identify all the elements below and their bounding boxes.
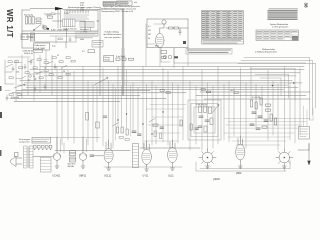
wire vert from top section bbox=[100, 24, 188, 85]
svg-text:UL11: UL11 bbox=[168, 175, 174, 178]
wire bottom rail mid bbox=[55, 150, 130, 152]
junction node e bbox=[151, 133, 152, 134]
transformer T1 winding hatch bbox=[65, 19, 73, 27]
tube V6 envelope bbox=[168, 147, 178, 162]
tube V3 pins bbox=[79, 137, 86, 166]
big box right double line a bbox=[121, 9, 123, 95]
svg-text:0,05µ 500: 0,05µ 500 bbox=[11, 97, 19, 99]
tube V5 grid lines bbox=[143, 154, 149, 160]
junction dot right bbox=[272, 85, 274, 87]
resistor R47 bbox=[262, 126, 267, 128]
wire after arrow bbox=[63, 9, 101, 11]
capacitor C51 bbox=[199, 116, 203, 117]
resistor R60 bbox=[52, 57, 56, 59]
rectifier V1 wires bbox=[53, 21, 86, 31]
wire left rail bbox=[21, 10, 23, 48]
resistor R62 bbox=[66, 57, 70, 59]
junction node d bbox=[162, 111, 163, 112]
table valve-data text fill col1 bbox=[202, 12, 204, 38]
ground g7 bbox=[238, 166, 242, 168]
transformer T2 hatch1 bbox=[24, 149, 28, 166]
switch contact squares bbox=[34, 146, 37, 149]
resistor R26 bbox=[9, 94, 13, 96]
wire bus right low1 bbox=[200, 91, 310, 93]
capacitor C23 bbox=[30, 59, 32, 65]
svg-text:0,1: 0,1 bbox=[148, 26, 151, 28]
table valve-data row lines bbox=[202, 13, 244, 37]
speaker LS1 magnet bbox=[15, 153, 19, 157]
wire eye right vert bbox=[187, 19, 189, 48]
junction dot right2 bbox=[293, 82, 295, 84]
table small B rows bbox=[117, 2, 130, 3]
ground g4 bbox=[145, 169, 149, 171]
coil L5 bbox=[163, 55, 167, 59]
capacitor C3 electrolytic bbox=[32, 17, 34, 25]
resistor R73 bbox=[207, 91, 211, 93]
tube V7 pins bbox=[238, 136, 243, 166]
tube V6 grid lines bbox=[169, 152, 175, 158]
wire to next stage bbox=[94, 155, 104, 157]
wire bus mid2 bbox=[22, 33, 98, 35]
tube socket SK2 center dot bbox=[284, 157, 286, 159]
table valve-data text fill col7 bbox=[234, 12, 238, 36]
speaker LS1 cone bbox=[11, 157, 16, 167]
resistor R32 bbox=[126, 129, 128, 135]
big box top edge bbox=[100, 8, 124, 10]
scan smudge left edge 1 bbox=[0, 86, 2, 91]
scan smudge left edge 3 bbox=[0, 150, 2, 156]
table valve-data text fill col3 bbox=[212, 12, 216, 34]
wire bottom rail under tubes bbox=[104, 166, 182, 168]
wire bus B4 bbox=[26, 86, 298, 88]
tube V6 pins bbox=[170, 140, 175, 168]
switch contact sq3 bbox=[42, 146, 45, 149]
table right-upper text rows bbox=[268, 11, 297, 19]
junction node a bbox=[117, 119, 118, 120]
target anode circle bbox=[162, 20, 166, 24]
resistor R71 bbox=[166, 92, 170, 94]
tube V2 triode circle bbox=[53, 153, 60, 160]
potentiometer P1 arrow bbox=[14, 84, 25, 88]
resistor R64 bbox=[39, 77, 43, 79]
svg-text:0,1µ: 0,1µ bbox=[52, 46, 56, 48]
resistor R28 bbox=[37, 59, 41, 61]
svg-text:38: 38 bbox=[304, 3, 309, 9]
wire staircase right bbox=[238, 58, 316, 120]
wire bus right low3 bbox=[204, 98, 310, 100]
small circle node bbox=[29, 75, 32, 78]
resistor R23 bbox=[33, 67, 37, 69]
wire eye left drop bbox=[146, 19, 148, 48]
extra verticals mid-left bbox=[116, 85, 131, 140]
svg-text:in Stellung M gezeichnet: in Stellung M gezeichnet bbox=[255, 51, 277, 54]
coil L6 bbox=[168, 55, 172, 59]
wire bus B3 bbox=[18, 84, 288, 86]
table valve-data caption text bbox=[203, 41, 241, 43]
resistor R50 bbox=[199, 106, 202, 113]
svg-text:von vorn gesehen: von vorn gesehen bbox=[105, 37, 121, 39]
table valve-data text fill col8 bbox=[239, 12, 243, 38]
dropper resistor dark striped bbox=[80, 22, 94, 28]
resistor R33 bbox=[153, 124, 158, 126]
wire bus B1 bbox=[20, 80, 292, 82]
switch arm diagonal mid-left bbox=[95, 78, 108, 85]
scan smudge left edge 2 bbox=[0, 112, 2, 118]
svg-text:30: 30 bbox=[33, 76, 35, 78]
svg-text:50: 50 bbox=[148, 38, 150, 40]
IF transformer T3 winding a bbox=[70, 151, 76, 156]
wire vert group bbox=[57, 66, 300, 150]
svg-text:blende: blende bbox=[105, 60, 110, 62]
capacitor C52 bbox=[205, 120, 209, 121]
svg-text:5000 0,1µ: 5000 0,1µ bbox=[24, 53, 34, 55]
ground g8 bbox=[282, 166, 286, 168]
lamp LP1 dial bbox=[43, 26, 47, 30]
svg-text:50µ 50µ 8µ: 50µ 50µ 8µ bbox=[24, 15, 33, 17]
wire upper links bbox=[44, 14, 60, 16]
capacitor C31 bbox=[138, 134, 142, 135]
table valve-data extra bottom text bbox=[212, 32, 238, 38]
terminal strip box bbox=[32, 138, 51, 144]
resistor R41 bbox=[255, 102, 257, 109]
tube EM4 internal grid bbox=[157, 38, 163, 44]
wire tube top stubs bbox=[61, 139, 87, 153]
table right-lower frame bbox=[256, 30, 299, 41]
resistor R7 bbox=[51, 13, 55, 15]
wire anode bbox=[160, 24, 164, 28]
wire top rail bbox=[22, 9, 30, 11]
switch comb row bbox=[65, 10, 89, 13]
resistor R11 bbox=[174, 56, 178, 58]
wire choke to box bbox=[35, 42, 67, 48]
capacitor C26 bbox=[44, 84, 46, 90]
switch contact sq4 bbox=[46, 146, 49, 149]
resistor R51 bbox=[204, 106, 207, 113]
antenna arrow fill bbox=[308, 161, 311, 165]
capacitor C24 bbox=[54, 64, 56, 70]
ground g3 bbox=[107, 168, 111, 170]
wire bus A2 bbox=[30, 69, 304, 71]
resistor R65 bbox=[49, 74, 53, 76]
tube socket SK1 circle bbox=[202, 152, 213, 163]
wire bus B2 bbox=[24, 82, 302, 84]
junction node c bbox=[142, 123, 143, 124]
tube EM4 top pin bbox=[159, 28, 161, 33]
resistor R27 bbox=[17, 94, 21, 96]
transformer T1 mains bbox=[63, 19, 76, 27]
tube socket SK1 spokes bbox=[199, 149, 216, 166]
svg-text:100: 100 bbox=[16, 72, 19, 74]
label box left cluster bbox=[34, 49, 43, 52]
svg-text:2x300: 2x300 bbox=[64, 13, 69, 15]
svg-text:6,3V~ 253V 280V: 6,3V~ 253V 280V bbox=[51, 30, 69, 32]
resistor R2 bbox=[36, 22, 41, 24]
capacitor C30 bbox=[132, 131, 136, 132]
switch S1 mains bbox=[34, 25, 41, 31]
resistor R3 bbox=[48, 16, 53, 18]
svg-text:UBF11: UBF11 bbox=[79, 175, 87, 178]
wire section right drop bbox=[66, 28, 68, 42]
resistor R35 bbox=[190, 124, 192, 130]
resistor R46 bbox=[275, 118, 277, 125]
capacitor C42 bbox=[264, 120, 268, 121]
resistor R20 bbox=[8, 61, 12, 63]
resistor R24 bbox=[44, 70, 48, 72]
small circle node2 bbox=[34, 78, 36, 80]
resistor R30 bbox=[117, 127, 119, 133]
tube V4 grid lines bbox=[106, 153, 112, 159]
corner box power bbox=[92, 41, 103, 48]
capacitor C22 bbox=[6, 95, 8, 101]
svg-text:Netzspannung 220V~ Schalter i: Netzspannung 220V~ Schalter in M bbox=[102, 10, 134, 13]
resistor R1 bbox=[36, 18, 41, 20]
wire transformer to tube bbox=[33, 156, 53, 158]
tube V5 pins bbox=[144, 141, 149, 169]
table small B text bbox=[117, 2, 128, 5]
svg-text:WR 1/T: WR 1/T bbox=[5, 9, 14, 38]
tube V4 envelope bbox=[104, 149, 113, 163]
long wire y63 bbox=[174, 62, 306, 64]
wire right bottom bbox=[298, 144, 309, 151]
table small A rows bbox=[103, 3, 116, 4]
component dark blob bbox=[183, 41, 186, 44]
resistor R61 bbox=[59, 61, 63, 63]
tube EM4 envelope bbox=[156, 33, 164, 47]
tube socket SK2 circle bbox=[279, 152, 290, 163]
svg-text:UCL11: UCL11 bbox=[104, 175, 112, 178]
speaker switch block bbox=[41, 158, 52, 173]
resistor R53 bbox=[210, 118, 213, 125]
note box text line2 bbox=[189, 51, 228, 53]
transformer T2 secondary bbox=[30, 146, 34, 168]
svg-text:Spannungen gem. gegen Chassis: Spannungen gem. gegen Chassis bbox=[68, 7, 102, 9]
resistor R31 bbox=[121, 127, 123, 133]
wire bus C3 left bbox=[18, 95, 140, 97]
tube V4 pins bbox=[106, 140, 111, 168]
svg-text:0,1: 0,1 bbox=[28, 80, 31, 82]
node dot junction bbox=[33, 29, 34, 30]
wire audio feed bbox=[50, 136, 100, 138]
wire bus right low2 bbox=[196, 95, 306, 97]
resistor R66 bbox=[58, 77, 62, 79]
table valve-data dense column band 1 bbox=[205, 11, 208, 38]
wire bus A1 bbox=[40, 66, 304, 68]
jog wires left band bbox=[5, 57, 47, 90]
table valve-data dense column band 2 bbox=[216, 11, 219, 38]
capacitor C53 bbox=[198, 126, 202, 127]
component solid block bbox=[47, 28, 50, 30]
choke L1 winding bbox=[31, 33, 35, 41]
table valve-data caption row line bbox=[202, 41, 244, 43]
wire vert left cluster bbox=[16, 50, 52, 101]
wire left hooks bbox=[5, 60, 14, 84]
resistor R42 bbox=[260, 98, 262, 105]
wire bus C5 left bbox=[14, 100, 120, 102]
svg-text:0,1 50 2M: 0,1 50 2M bbox=[252, 97, 260, 99]
resistor R29 bbox=[44, 62, 48, 64]
resistor R36 bbox=[86, 113, 89, 121]
table right-lower text bbox=[257, 31, 297, 39]
terminal strip text bbox=[33, 139, 49, 141]
table valve-data text fill col2 bbox=[206, 12, 210, 38]
tube V7 envelope bbox=[236, 144, 245, 160]
wire bus C1 left bbox=[16, 89, 150, 91]
resistor R68 bbox=[71, 60, 75, 62]
nested box inner bbox=[194, 107, 215, 133]
resistor R74 bbox=[234, 92, 238, 94]
capacitor C32 bbox=[160, 127, 164, 128]
svg-text:p4000: p4000 bbox=[213, 178, 220, 181]
svg-text:25: 25 bbox=[57, 55, 59, 57]
tube socket SK1 center dot bbox=[207, 157, 209, 159]
table right-lower cols bbox=[263, 30, 291, 41]
svg-text:p500: p500 bbox=[236, 172, 242, 175]
resistor R54 bbox=[204, 126, 207, 132]
coupling cap C50 bbox=[90, 155, 94, 156]
resistor R4 bbox=[169, 27, 174, 29]
bandfilter box bbox=[104, 56, 114, 62]
wire loop horizontals lower half bbox=[144, 105, 310, 146]
wire bus A3 bbox=[34, 72, 300, 74]
resistor R70 bbox=[160, 90, 164, 92]
svg-text:Schalterstellung: Schalterstellung bbox=[105, 31, 119, 34]
resistor R8 bbox=[58, 38, 62, 40]
svg-text:0,1µ 50pF: 0,1µ 50pF bbox=[116, 56, 126, 58]
capacitor block C11 bbox=[122, 58, 126, 61]
capacitor C5 bbox=[42, 24, 44, 29]
IF transformer T3 hatch b bbox=[70, 159, 76, 161]
dropper resistor hatch bbox=[82, 22, 92, 28]
corner box text bbox=[93, 42, 102, 44]
eye lower wires bbox=[161, 48, 174, 63]
nested box mid bbox=[191, 104, 218, 137]
capacitor C33 bbox=[195, 128, 199, 129]
resistor R78 bbox=[160, 133, 162, 139]
resistor R10 bbox=[129, 58, 134, 60]
pickup box text bbox=[300, 129, 308, 137]
wire eye bottom bbox=[147, 47, 188, 49]
wire right block verts bbox=[58, 10, 98, 31]
capacitor C40 bbox=[252, 112, 256, 113]
pickup box right bbox=[299, 127, 310, 140]
wire bus A4 bbox=[44, 75, 296, 77]
wire nested corners right bbox=[250, 68, 295, 100]
wire bus B5 bbox=[22, 89, 284, 91]
svg-text:0,1µF 500Ω: 0,1µF 500Ω bbox=[35, 48, 46, 50]
choke L1 hatch bbox=[31, 35, 35, 40]
resistor R43 bbox=[266, 104, 271, 106]
wire bus mid bbox=[22, 30, 98, 32]
svg-text:UY11: UY11 bbox=[143, 175, 149, 178]
capacitor C6 bbox=[69, 37, 71, 42]
svg-text:0,5M 5000 50: 0,5M 5000 50 bbox=[196, 104, 207, 106]
transformer T2 core lines bbox=[27, 147, 30, 168]
ground g6 bbox=[206, 166, 210, 168]
table valve-data text fill col5 bbox=[223, 12, 227, 34]
tube V2 pins bbox=[53, 137, 60, 166]
arrow mains feed bbox=[56, 7, 63, 10]
big box switch-position left edge bbox=[99, 9, 101, 95]
speaker wires bbox=[16, 158, 22, 164]
wire mains top bbox=[30, 8, 55, 10]
ground g1 bbox=[55, 166, 59, 168]
switch diagonal mid bbox=[113, 119, 156, 127]
capacitor C25 bbox=[34, 86, 36, 92]
tube V3 triode circle bbox=[79, 153, 86, 160]
capacitor C4 bbox=[179, 28, 181, 35]
capacitor C43 bbox=[250, 124, 254, 125]
resistor R77 bbox=[154, 131, 156, 137]
IF transformer T3 winding b bbox=[70, 157, 76, 162]
svg-text:UCH11: UCH11 bbox=[53, 175, 61, 178]
resistor R72 bbox=[201, 89, 205, 91]
capacitor C34 bbox=[103, 116, 107, 117]
svg-text:0,5M 2M 50: 0,5M 2M 50 bbox=[23, 51, 34, 53]
wire lower area links bbox=[50, 31, 98, 43]
wire bottom rail mid2 bbox=[140, 147, 200, 149]
capacitor C21 bbox=[24, 64, 26, 70]
ground g2 bbox=[81, 166, 85, 168]
resistor R22 bbox=[19, 67, 23, 69]
svg-text:3-2: 3-2 bbox=[82, 51, 85, 53]
nested box outer around AF cluster bbox=[188, 100, 221, 140]
table small A frame bbox=[103, 2, 116, 6]
capacitor C41 bbox=[258, 116, 262, 117]
tube socket SK2 spokes bbox=[276, 149, 293, 166]
svg-text:Wellenschalter: Wellenschalter bbox=[262, 48, 275, 51]
svg-text:Spulen-Widerstände: Spulen-Widerstände bbox=[270, 23, 289, 26]
wire eye mid rails bbox=[147, 24, 166, 44]
big box right double line b bbox=[123, 9, 125, 95]
IF transformer T4 can bbox=[133, 144, 139, 168]
table right-lower dark cell bbox=[292, 36, 298, 41]
wire bottom left section bbox=[22, 47, 34, 49]
switch diagonals left band bbox=[20, 59, 67, 79]
switch S3 bbox=[36, 71, 43, 74]
table small A text bbox=[104, 2, 115, 5]
fuse holder cluster bbox=[21, 34, 28, 40]
resistor R76 bbox=[125, 139, 129, 141]
lamp LP1 cross bbox=[44, 26, 47, 29]
capacitor block C10 bbox=[116, 58, 120, 61]
text rows under comb bbox=[64, 15, 89, 19]
ground g5 bbox=[170, 168, 174, 170]
capacitor C44 bbox=[256, 128, 260, 129]
table valve-data dense column band 3 bbox=[226, 11, 229, 38]
antenna arrow right bbox=[308, 144, 311, 166]
resistor R44 bbox=[266, 109, 271, 111]
svg-text:Lautsprecher: Lautsprecher bbox=[19, 140, 30, 143]
eye lower comps box bbox=[161, 51, 167, 54]
table small B frame bbox=[117, 1, 133, 5]
resistor R45 bbox=[270, 114, 272, 121]
label box mid small bbox=[88, 50, 95, 53]
transformer T2 output primary bbox=[24, 146, 28, 168]
wire bus C4 left bbox=[10, 97, 166, 99]
table right-lower rows bbox=[256, 33, 299, 38]
table right-upper header row bbox=[269, 8, 298, 10]
svg-text:Entbrummer: Entbrummer bbox=[35, 44, 46, 47]
resistor R67 bbox=[66, 73, 70, 75]
table valve-data column lines bbox=[205, 11, 238, 39]
resistor R21 bbox=[15, 61, 19, 63]
wire eye top rail bbox=[147, 18, 188, 20]
note box mid-right bbox=[186, 48, 232, 54]
resistor R52 bbox=[209, 107, 212, 114]
eye lower comp r bbox=[162, 57, 166, 59]
capacitor C2 electrolytic bbox=[29, 17, 31, 25]
resistor R63 bbox=[25, 72, 29, 74]
